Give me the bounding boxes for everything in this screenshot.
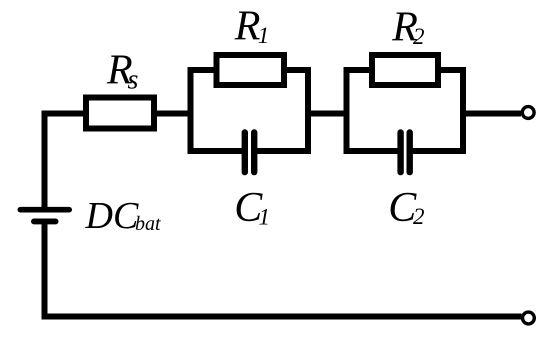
resistor Rs [86,98,154,129]
node: block1 left vertical wire [188,70,194,151]
wire: top-left horizontal from corner to resistor Rs [42,111,87,117]
node: block2 left vertical wire [344,67,350,154]
wire: block2 top rail [344,67,467,73]
svg-text:1: 1 [258,23,270,48]
resistor R2 [372,55,438,85]
svg-text:2: 2 [413,24,425,49]
svg-text:R: R [234,4,261,50]
wire: block2 right vertical to top terminal [463,111,521,117]
svg-text:DC: DC [85,195,139,237]
svg-text:bat: bat [135,213,161,235]
wire: Rs right to block1 left vertical [154,111,191,117]
wire: block2 bottom rail left [344,148,401,154]
terminal bottom-right [523,312,535,324]
wire: block1 bottom rail right [254,148,311,154]
resistor R1 [217,55,285,85]
node: block1 right vertical wire [305,67,311,154]
wire: bottom horizontal to bottom terminal [42,314,522,320]
wire: block1 top rail [188,67,312,73]
node: block2 right vertical wire [460,67,466,154]
svg-text:s: s [128,64,139,95]
capacitor C1 [242,129,258,175]
terminal top-right [522,107,534,119]
wire: left vertical from battery bottom plate to bottom rail [42,224,48,317]
svg-text:1: 1 [259,204,271,229]
wire: block2 bottom rail right [410,148,466,154]
svg-text:2: 2 [413,204,425,229]
capacitor C2 [397,129,413,175]
battery DC_bat [18,207,73,225]
wire: left vertical from main line down to battery top plate [42,117,48,208]
wire: block1 bottom rail left [188,148,245,154]
wire: block1 right vertical to block2 left vertical [308,111,347,117]
